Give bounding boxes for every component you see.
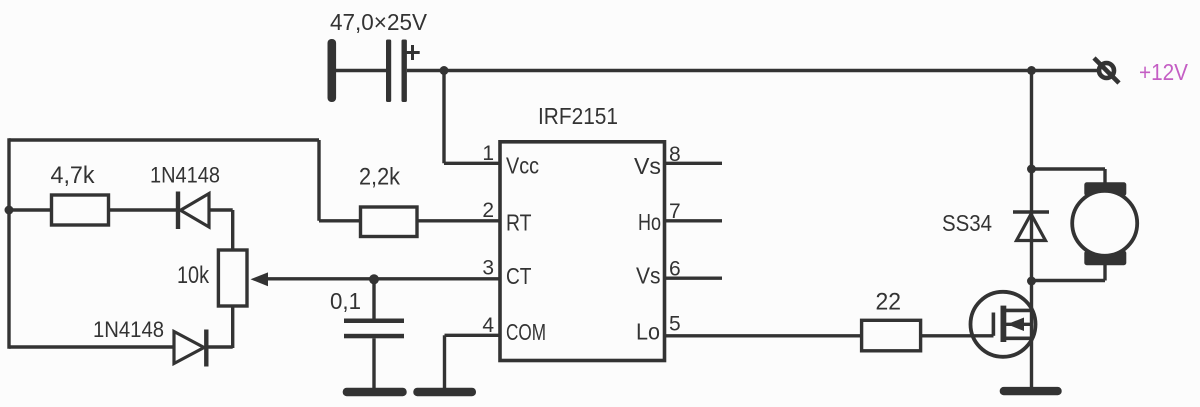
svg-text:2: 2 [482, 199, 494, 222]
svg-text:0,1: 0,1 [330, 288, 361, 314]
svg-text:6: 6 [669, 258, 681, 281]
svg-text:CT: CT [506, 263, 532, 289]
svg-text:3: 3 [482, 257, 494, 280]
svg-text:Lo: Lo [636, 319, 660, 345]
svg-text:IRF2151: IRF2151 [538, 103, 618, 129]
svg-text:4,7k: 4,7k [51, 162, 96, 189]
svg-text:RT: RT [506, 210, 532, 236]
svg-text:SS34: SS34 [942, 210, 992, 236]
svg-text:COM: COM [506, 319, 546, 345]
svg-text:10k: 10k [177, 262, 210, 289]
svg-text:1N4148: 1N4148 [150, 163, 220, 188]
svg-text:8: 8 [669, 143, 681, 166]
svg-text:4: 4 [482, 314, 494, 337]
svg-text:Ho: Ho [638, 209, 661, 235]
svg-text:7: 7 [669, 200, 681, 223]
svg-text:1N4148: 1N4148 [93, 317, 164, 342]
svg-text:Vcc: Vcc [506, 153, 539, 179]
svg-text:Vs: Vs [634, 153, 661, 179]
svg-text:5: 5 [669, 313, 681, 336]
svg-text:22: 22 [876, 289, 902, 316]
svg-text:47,0×25V: 47,0×25V [330, 9, 428, 35]
svg-text:2,2k: 2,2k [359, 164, 401, 191]
svg-text:+12V: +12V [1139, 59, 1189, 85]
svg-text:Vs: Vs [636, 263, 661, 289]
svg-text:1: 1 [482, 142, 494, 165]
